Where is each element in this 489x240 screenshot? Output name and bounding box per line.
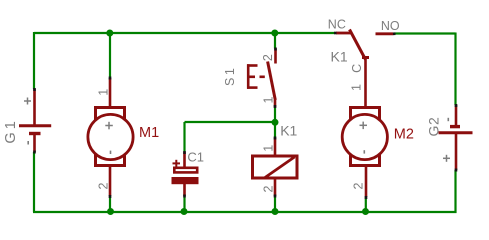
- node junction bottom C1: [181, 208, 188, 215]
- pushbutton S1: [268, 49, 276, 108]
- wire M2 bottom stub: [365, 197, 367, 212]
- node junction bottom M1: [107, 208, 114, 215]
- G2 plus sign: [443, 155, 450, 162]
- wire C1 top stub: [183, 122, 185, 152]
- relay contact K1: [336, 30, 394, 108]
- svg-text:2: 2: [261, 54, 275, 61]
- joint NC contact: [334, 32, 337, 35]
- svg-text:2: 2: [262, 185, 276, 192]
- wire M1 top stub: [109, 33, 111, 78]
- svg-text:1: 1: [262, 96, 276, 103]
- M1 minus sign: [110, 151, 112, 154]
- svg-text:1: 1: [262, 145, 276, 152]
- joint NO contact: [393, 32, 396, 35]
- wire C1 horizontal to S1 node: [185, 121, 276, 123]
- node junction bottom M2: [362, 208, 369, 215]
- svg-text:G2: G2: [426, 117, 442, 137]
- G1 plus sign: [24, 98, 31, 105]
- svg-text:NO: NO: [381, 19, 400, 33]
- motor M2: [342, 108, 387, 198]
- pin joint marks: [35, 48, 457, 200]
- svg-text:K1: K1: [331, 48, 348, 64]
- wire top-right (NO contact to right rail): [394, 32, 456, 34]
- G2 minus sign: [447, 118, 449, 121]
- S1 actuator dash: [260, 76, 265, 79]
- wire M1 bottom stub: [109, 196, 111, 212]
- wire left rail lower: [33, 152, 35, 212]
- svg-text:M2: M2: [394, 127, 414, 143]
- wire right rail upper: [454, 33, 456, 106]
- svg-text:NC: NC: [328, 17, 346, 31]
- svg-text:C1: C1: [187, 149, 204, 164]
- battery G1: [19, 89, 51, 152]
- node junction bottom K1 coil: [272, 208, 279, 215]
- G1 minus sign: [27, 141, 29, 145]
- svg-text:1: 1: [96, 89, 110, 96]
- node junction top S1: [271, 30, 278, 37]
- svg-text:M1: M1: [139, 125, 159, 141]
- wire relay coil bottom stub: [274, 196, 276, 212]
- svg-text:G1: G1: [3, 118, 19, 143]
- svg-text:C: C: [350, 64, 364, 73]
- C1 plus sign: [173, 160, 181, 167]
- M1 plus sign: [105, 122, 113, 130]
- svg-text:2: 2: [96, 182, 110, 189]
- motor M1: [88, 78, 133, 196]
- M2 minus sign: [363, 150, 365, 153]
- svg-text:K1: K1: [280, 122, 297, 138]
- S1 actuator plate: [247, 64, 258, 89]
- wire C1 bottom stub: [183, 196, 185, 212]
- capacitor C1: [172, 152, 199, 196]
- node junction S1/C1/K1coil: [272, 119, 279, 126]
- svg-text:2: 2: [351, 182, 365, 189]
- relay coil K1: [253, 138, 298, 197]
- M2 plus sign: [360, 122, 368, 130]
- svg-text:S1: S1: [223, 66, 237, 86]
- wire top-left horizontal (battery+ to NC contact): [34, 32, 335, 34]
- wire S1 bottom to relay coil: [274, 107, 276, 138]
- node junction top M1: [106, 30, 113, 37]
- battery G2: [439, 105, 473, 170]
- svg-text:1: 1: [349, 84, 363, 91]
- wire left rail upper: [33, 32, 35, 89]
- wire bottom rail: [33, 211, 457, 213]
- wire S1 top stub: [274, 33, 276, 49]
- wire right rail lower: [454, 170, 456, 213]
